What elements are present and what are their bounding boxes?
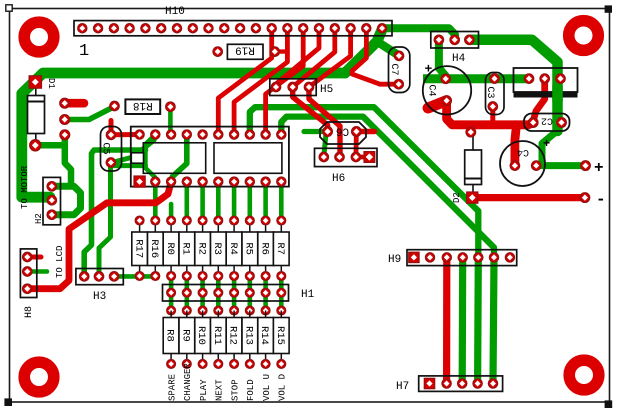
wire green socket pin4 to pin bottom3	[171, 135, 187, 182]
wire green IC bottom col3 to resistor	[169, 204, 174, 221]
svg-text:R10: R10	[195, 326, 207, 345]
connector H7	[396, 376, 503, 393]
connector H5	[270, 79, 333, 96]
wire green through socket pin2	[146, 135, 156, 182]
wire red band branch to C3 bottom	[490, 108, 495, 125]
wire green resistor bottom through H1	[200, 276, 205, 311]
mounting hole bottom-left	[24, 362, 54, 392]
svg-text:H1: H1	[301, 289, 315, 301]
svg-text:R6: R6	[258, 242, 270, 255]
diode D2	[452, 127, 482, 203]
capacitor C5	[100, 127, 122, 172]
svg-text:R14: R14	[258, 326, 270, 345]
wire green C2 to C4 right	[536, 131, 557, 166]
mounting hole top-left	[24, 22, 54, 52]
resistor array R8-R15	[163, 306, 289, 368]
svg-text:R1: R1	[180, 242, 192, 255]
wire red stub pill	[65, 99, 84, 108]
corner mark bottom-right	[605, 400, 613, 408]
svg-text:CHANGER: CHANGER	[183, 363, 193, 401]
wire green H4 pin1 down to band	[439, 40, 446, 76]
resistor R7	[273, 221, 289, 277]
corner mark top-left	[6, 5, 12, 11]
wire green IC pin8 to H9 pin5	[250, 107, 478, 256]
wire red C6 right to H6 pin3	[353, 132, 358, 157]
resistor R12	[226, 311, 242, 364]
wire green H8 pin2 stub	[27, 269, 47, 274]
wire red H5 pin2 to C6 left	[293, 88, 328, 132]
svg-text:R8: R8	[164, 329, 176, 342]
wire red C6 right stub	[356, 129, 374, 134]
resistor R2	[195, 221, 211, 277]
resistor R18	[110, 99, 175, 114]
resistor R8	[163, 311, 179, 364]
svg-text:R18: R18	[133, 99, 153, 111]
wire green H2 pin1 wrap to pin3	[52, 186, 81, 214]
svg-text:R7: R7	[274, 242, 286, 255]
wire green socket rail to H3 pin1	[84, 150, 145, 276]
wire red band branch to D2 top	[468, 125, 473, 132]
svg-text:H2: H2	[34, 213, 44, 224]
wire green resistor bottom through H1	[263, 276, 268, 311]
svg-text:H3: H3	[93, 291, 106, 303]
svg-text:R13: R13	[242, 326, 254, 345]
wire red H10 pin17 to H5 pin3	[309, 33, 351, 87]
diode D1	[28, 76, 57, 151]
wire green IC bottom col8 to resistor	[248, 182, 253, 221]
wire green H4 pin3 to relay right	[469, 40, 557, 131]
svg-text:R17: R17	[132, 239, 144, 258]
wire green IC bottom col5 to resistor	[200, 182, 205, 221]
wire green C4 top band to relay pin1	[423, 74, 529, 83]
svg-text:R11: R11	[211, 326, 223, 345]
wire green stub left of C6	[304, 129, 328, 134]
svg-text:-: -	[596, 191, 606, 209]
wire green resistor bottom through H1	[248, 276, 253, 311]
connector H1	[163, 285, 315, 302]
svg-text:TO MOTOR: TO MOTOR	[20, 165, 30, 209]
svg-text:VOL D: VOL D	[278, 374, 288, 401]
capacitor C3	[484, 73, 504, 115]
svg-text:C4: C4	[517, 146, 529, 157]
wire green H9 pin5 to H7 pin4	[474, 257, 482, 383]
svg-text:PLAY: PLAY	[199, 379, 209, 401]
resistor R4	[226, 221, 242, 277]
svg-text:C4: C4	[426, 84, 437, 96]
svg-text:R9: R9	[179, 329, 191, 342]
resistor R15	[273, 311, 289, 364]
resistor R5	[242, 221, 258, 277]
svg-text:C2: C2	[541, 115, 553, 126]
svg-text:D2: D2	[452, 192, 462, 203]
pad node B	[60, 115, 70, 125]
wire green IC bottom col10 to resistor	[279, 182, 284, 221]
capacitor C4 (lower)	[500, 137, 550, 186]
wire red H10 pin14 to IC pin9	[266, 33, 304, 133]
relay K1	[514, 68, 578, 101]
resistor R13	[242, 311, 258, 364]
wire green resistor bottom through H1	[216, 276, 221, 311]
svg-text:R19: R19	[235, 44, 255, 56]
resistor R9	[179, 311, 195, 364]
svg-text:C3: C3	[484, 86, 495, 98]
svg-text:C5: C5	[100, 142, 111, 154]
wire red H10 pin15 to H5 pin1	[276, 33, 319, 87]
wire green IC pin10 to H9 pin6	[281, 117, 494, 257]
resistor R10	[195, 311, 211, 364]
wire green IC bottom col7 to resistor	[232, 182, 237, 221]
wire green pad to R18 left	[65, 107, 115, 120]
wire red C4 bottom band to C2 left	[447, 101, 534, 125]
wire red C5 top stub up	[109, 121, 114, 135]
svg-text:R4: R4	[227, 242, 239, 255]
wire green IC bottom col4 to resistor	[185, 182, 190, 221]
svg-text:R5: R5	[243, 242, 255, 255]
wire green resistor bottom through H1	[232, 276, 237, 311]
wire green IC bottom col2 to resistor	[153, 182, 158, 221]
resistor R17	[132, 221, 148, 277]
wire green resistor bottom through H1	[169, 276, 174, 311]
svg-text:H9: H9	[388, 254, 401, 266]
wire green H10 pin20 to H4 pin2	[382, 28, 455, 40]
wire green band riser to H10 pin20	[345, 29, 382, 73]
wire green H3 pin3 to R17 R16 bottoms	[114, 274, 155, 279]
wire red relay pin2 to C2 left	[533, 80, 545, 122]
connector H6	[315, 148, 378, 185]
svg-text:R16: R16	[148, 239, 160, 258]
svg-text:FOLD: FOLD	[246, 379, 256, 401]
resistor R3	[211, 221, 227, 277]
svg-text:+: +	[543, 137, 550, 151]
wire red H8 pin3 to IC via TO LCD	[27, 183, 171, 289]
wire green IC bottom col6 to resistor	[216, 182, 221, 221]
wire green C4 right to plus pad	[536, 162, 585, 169]
pad node C	[60, 130, 70, 140]
svg-text:D1: D1	[46, 78, 56, 89]
svg-text:+: +	[425, 62, 433, 77]
resistor R19	[213, 44, 279, 60]
wire green resistor bottom through H1	[279, 276, 284, 311]
wire red minus rail	[472, 194, 585, 201]
capacitor C4 (upper)	[423, 62, 471, 115]
wire green H9 pin4 to H7 pin3	[459, 257, 467, 383]
wire red H10 pin12 to IC pin6	[218, 33, 271, 133]
wire green IC bottom col9 to resistor	[263, 182, 268, 221]
connector H9	[388, 250, 517, 266]
svg-text:C7: C7	[388, 63, 399, 75]
key function labels	[167, 363, 287, 401]
wire red H6 pin3 to pin4	[356, 155, 370, 160]
svg-text:H4: H4	[452, 53, 466, 65]
wire green resistor bottom through H1	[185, 276, 190, 311]
connector H4	[431, 32, 479, 66]
capacitor C6	[320, 122, 366, 144]
wire red C5 top to IC pin1	[111, 132, 140, 137]
wire green D1 cathode horizontal	[35, 142, 62, 149]
IC socket U1	[131, 127, 289, 188]
pad plus terminal	[581, 161, 591, 171]
connector H2	[20, 165, 61, 225]
wire red H5 pin3 to H6 pin2	[309, 88, 340, 157]
wire green IC pin2 to C5 bottom	[113, 135, 154, 163]
wire green C6 left to H6 pin1	[324, 134, 326, 157]
svg-text:R0: R0	[164, 242, 176, 255]
wire green junction up to pad	[62, 136, 69, 145]
svg-text:R3: R3	[211, 242, 223, 255]
resistor R6	[258, 221, 274, 277]
svg-text:R15: R15	[274, 326, 286, 345]
wire green junction down to H2 bracket	[65, 145, 71, 186]
resistor R16	[148, 221, 164, 277]
corner mark top-right	[605, 5, 612, 12]
wire green branch to C7 top	[377, 42, 399, 56]
capacitor C7	[388, 47, 410, 93]
wire red H10 pin16 to H5 pin2	[293, 33, 335, 87]
svg-text:+: +	[594, 159, 604, 177]
resistor R14	[258, 311, 274, 364]
svg-text:H5: H5	[320, 84, 333, 96]
svg-text:1: 1	[79, 42, 89, 61]
svg-text:H8: H8	[24, 306, 35, 318]
wire red C4 stub blob	[428, 101, 447, 108]
resistor R1	[179, 221, 195, 277]
capacitor C2	[524, 114, 570, 132]
connector H8	[20, 249, 36, 318]
svg-text:H10: H10	[165, 6, 185, 18]
corner mark bottom-left	[4, 398, 12, 406]
svg-text:NEXT: NEXT	[215, 379, 225, 401]
wire red H8 pin1 stub	[27, 255, 41, 260]
wire green C5 bottom to H3 pin2	[99, 163, 111, 277]
svg-text:TO LCD: TO LCD	[55, 246, 65, 278]
svg-text:R12: R12	[227, 326, 239, 345]
svg-text:SPARE: SPARE	[167, 374, 177, 401]
connector H3	[76, 269, 123, 304]
svg-text:C6: C6	[336, 125, 349, 137]
resistor R11	[211, 311, 227, 364]
resistor array R17 R16 R0-R7	[132, 216, 289, 280]
wire green crossing relay bar	[552, 86, 563, 101]
resistor R0	[163, 221, 179, 277]
pad node A	[60, 98, 70, 108]
svg-text:VOL U: VOL U	[262, 374, 272, 401]
svg-text:H7: H7	[396, 381, 409, 393]
wire red R19 right pad stub	[275, 49, 288, 53]
wire red H9 pin3 to H7 pin2	[443, 257, 450, 383]
wire green top band and left rail	[22, 73, 345, 197]
pad minus terminal	[580, 193, 590, 203]
wire red H10 pin18 to C7 bottom	[352, 33, 396, 84]
wire red H10 pin13 to IC pin7	[234, 33, 287, 133]
svg-text:STOP: STOP	[230, 379, 240, 401]
wire red band down to C4b left	[515, 125, 517, 165]
wire green C5 bottom right stub	[111, 163, 146, 168]
wire green H9 pin6 to H7 pin5	[493, 257, 494, 383]
wire green R18 right to IC pin3	[168, 108, 173, 134]
svg-text:H6: H6	[332, 173, 345, 185]
mounting hole top-right	[569, 21, 599, 51]
mounting hole bottom-right	[569, 360, 599, 390]
svg-text:R2: R2	[195, 242, 207, 255]
connector H10	[74, 6, 392, 61]
